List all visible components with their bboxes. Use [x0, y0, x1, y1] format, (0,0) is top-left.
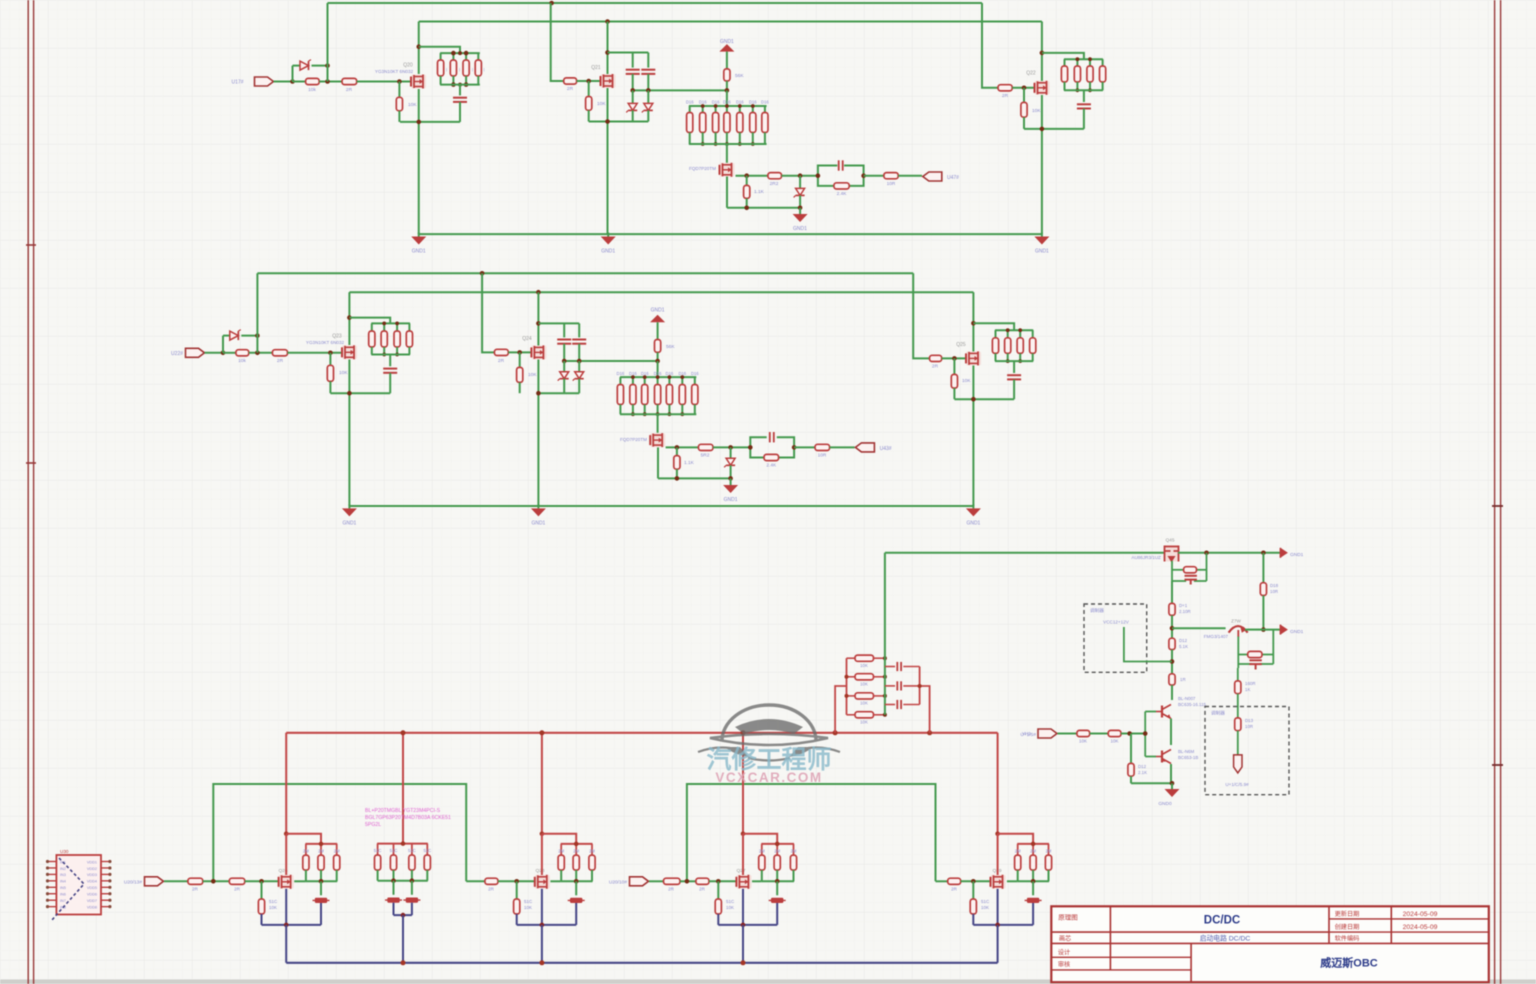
wire array1 top bar (red): [305, 843, 337, 845]
resistor 51C 10K pulldown Q27: [717, 881, 719, 899]
diode D23 bypass: [222, 336, 224, 353]
resistor 10K pulldown Q20: [398, 82, 400, 98]
wire input to bases: [1130, 733, 1146, 735]
junction (1206.5,552.8): [1204, 551, 1209, 556]
power GND1 arrow right 2: [1280, 625, 1288, 635]
diode D20 bypass: [292, 66, 294, 82]
junction array5 bottom: [1031, 879, 1036, 884]
wire zener mid rail s2: [564, 360, 657, 362]
resistor D16 array2#4: [657, 377, 659, 384]
svg-text:51C: 51C: [726, 899, 735, 904]
resistor snubber C2-3: [1019, 330, 1021, 338]
resistor snubber A2-3: [396, 323, 398, 331]
wire bottom return: [727, 207, 800, 209]
wire snubber C2 bottom rail: [995, 360, 1033, 362]
wire R to J2: [319, 81, 342, 83]
wire red L to array1: [286, 834, 321, 844]
svg-text:51C: 51C: [981, 899, 990, 904]
wire Q29 source navy drop: [997, 889, 999, 925]
wire to gate Q29: [961, 880, 991, 882]
svg-text:VDD5: VDD5: [87, 886, 97, 890]
junction Q21 bottom (607.5,121.5): [605, 119, 610, 124]
capacitor midsnub c2: [411, 881, 413, 895]
svg-text:设计: 设计: [1058, 949, 1070, 957]
capacitor snubber A2: [389, 355, 391, 367]
wire navy drop1 to bus: [285, 925, 287, 963]
ground GND1 top symbol: [719, 44, 734, 52]
wire navy U4: [973, 924, 1033, 926]
svg-text:调制器: 调制器: [1090, 607, 1104, 614]
resistor 2R gate Q23: [272, 350, 287, 356]
resistor D16 array2#6: [681, 377, 683, 384]
svg-text:BL+P20TMGBL YGT23M4PCI-S: BL+P20TMGBL YGT23M4PCI-S: [365, 808, 441, 814]
capacitor array1 cap: [320, 881, 322, 895]
wire array center to opto: [726, 144, 728, 163]
wire drain branch to snubber C2: [973, 323, 1014, 330]
resistor D16 array2#1: [619, 377, 621, 384]
svg-text:2M: 2M: [334, 848, 340, 853]
dashed box output: [1205, 707, 1289, 795]
capacitor RC box top: [838, 160, 840, 170]
wire net GATE1 top bus: [328, 2, 983, 4]
resistor array4-3 2M: [793, 844, 795, 855]
zener D24a: [563, 361, 565, 372]
resistor snubber C3: [1089, 59, 1091, 66]
resistor 2R chain1b: [229, 878, 245, 884]
resistor 10k input s2: [223, 352, 236, 354]
transistor NPN driver upper: [1161, 706, 1163, 718]
svg-text:D16: D16: [641, 371, 649, 376]
svg-text:启动电路 DC/DC: 启动电路 DC/DC: [1200, 934, 1251, 943]
capacitor array3 cap: [575, 881, 577, 895]
resistor 10K pulldown Q24: [519, 352, 521, 367]
wire 56K to array: [726, 90, 728, 106]
svg-text:2R: 2R: [488, 887, 495, 892]
wire Q20 source to GND rail: [418, 89, 420, 234]
transistor Q22: [1035, 81, 1050, 95]
junction bank row1: [883, 656, 887, 660]
svg-text:10K: 10K: [1032, 108, 1041, 114]
resistor D18 10R: [1260, 583, 1266, 596]
svg-text:D16: D16: [686, 100, 694, 105]
svg-text:2R: 2R: [277, 358, 284, 364]
wire Q22 drain riser: [1041, 22, 1043, 82]
resistor snubber C4: [1102, 59, 1104, 66]
power GND1 arrow right: [1280, 548, 1288, 558]
svg-text:VDD2: VDD2: [87, 867, 97, 871]
junction mid rail s2: [562, 359, 567, 364]
wire opto out: [736, 175, 768, 177]
wire array7 top rail: [689, 105, 767, 107]
junction DRAIN2 bus x=538.4: [536, 290, 541, 295]
svg-text:VCXCAR.COM: VCXCAR.COM: [715, 770, 822, 785]
wire VCC12 stub: [1124, 627, 1172, 662]
svg-text:D+1: D+1: [1179, 603, 1188, 608]
svg-text:GND1: GND1: [412, 249, 426, 255]
resistor 56K s2: [657, 322, 659, 339]
svg-text:AU86JR3/1UZ: AU86JR3/1UZ: [1131, 555, 1161, 560]
wire net GATE2 bus: [257, 272, 913, 274]
resistor array1-3 2M: [336, 844, 338, 855]
svg-text:Q28: Q28: [535, 868, 544, 874]
svg-text:U47#: U47#: [947, 175, 959, 181]
wire to Q24 gate: [508, 351, 532, 353]
ground GND1 rail2-mid: [537, 504, 539, 508]
wire Q24 source down to GND rail2: [537, 360, 539, 507]
resistor snubber A2: [452, 53, 454, 60]
svg-text:D16: D16: [723, 100, 731, 105]
svg-text:IN7: IN7: [60, 899, 66, 903]
resistor bank 10K row3: [847, 695, 856, 697]
ground GND1 rail-left: [418, 233, 420, 237]
transistor FQD7P20TM opto-fet s2: [650, 433, 665, 447]
junction Q27 drop: [741, 832, 746, 837]
junction Q22 drain branch (1041.9,52.9): [1040, 51, 1045, 56]
svg-text:GND1: GND1: [724, 497, 738, 503]
wire caps top rail Q21: [608, 52, 649, 54]
svg-text:Q22: Q22: [1026, 71, 1036, 77]
wire RC box s2: [750, 437, 766, 447]
wire midsnub navy drop: [402, 915, 404, 963]
wire riser GATE2 to Q25 gate: [913, 273, 929, 358]
svg-text:D16: D16: [736, 100, 744, 105]
junction array4 bottom: [775, 879, 780, 884]
wire Q20 source loop: [400, 121, 460, 123]
junction bottom return: [744, 206, 749, 211]
svg-text:2024-05-09: 2024-05-09: [1403, 924, 1438, 931]
resistor snubber C2: [1076, 59, 1078, 66]
junction (1263.4,552.8): [1261, 551, 1266, 556]
wire opto source down s2: [657, 447, 659, 478]
wire Q45 to GND1 arrow: [1178, 552, 1280, 554]
resistor array3-1 2M: [560, 844, 562, 855]
wire Q21 source to GND rail: [607, 88, 609, 234]
sheet bottom edge strip: [0, 980, 1536, 984]
wire riser GATE1 to Q21 gate: [551, 3, 564, 81]
wire Q27 drain red drop: [742, 733, 744, 834]
svg-text:GND1: GND1: [1290, 629, 1304, 635]
wire net DRAIN2 bus: [349, 291, 973, 293]
svg-text:10R: 10R: [1245, 724, 1253, 729]
wire Q27 source navy drop: [742, 889, 744, 925]
wire port2 to R: [649, 880, 664, 882]
svg-text:Q45: Q45: [1165, 538, 1174, 544]
svg-text:BGL7GP63P20TM4D7B03A 6CKE51: BGL7GP63P20TM4D7B03A 6CKE51: [365, 815, 451, 821]
wire to Q22 gate: [1012, 87, 1035, 89]
sheet frame left double line: [26, 0, 36, 984]
svg-text:2M: 2M: [759, 848, 765, 853]
wire RC-bank mid green column: [884, 553, 886, 715]
svg-text:2R: 2R: [668, 887, 675, 892]
svg-text:2R2: 2R2: [770, 181, 779, 187]
resistor snubber C2-2: [1007, 330, 1009, 338]
svg-text:10R: 10R: [818, 453, 827, 459]
wire PNP collector down: [1237, 637, 1239, 669]
svg-text:1K: 1K: [1245, 687, 1250, 692]
junctions red VBUS: [401, 730, 406, 735]
ground GND1 rail-mid: [607, 233, 609, 237]
junction chain1 (213.3,881.3): [211, 879, 216, 884]
resistor snubber A2-4: [408, 323, 410, 331]
junction out (746.7,175.7): [744, 173, 749, 178]
svg-text:VDD7: VDD7: [87, 899, 97, 903]
wire drain branch to snubber A2: [349, 318, 390, 324]
transistor Q26: [279, 875, 294, 889]
svg-text:U17#: U17#: [232, 80, 244, 86]
wire 1K to D13: [1237, 694, 1239, 718]
svg-text:2.4K: 2.4K: [837, 191, 848, 197]
resistor 10K pulldown Q23: [329, 353, 331, 366]
svg-text:U22#: U22#: [171, 351, 183, 357]
junction Q29 drop: [995, 832, 1000, 837]
junction node Z (800.1,175.7): [798, 173, 803, 178]
junction Q24 bottom: [536, 391, 541, 396]
wire snubber C bottom rail: [1064, 89, 1103, 91]
wire net DRAIN1 bus: [419, 21, 1042, 23]
svg-text:U20/13#: U20/13#: [124, 880, 142, 886]
resistor D13 10R: [1235, 718, 1241, 731]
resistor D16 array#2: [702, 106, 704, 113]
resistor 2R2: [768, 173, 782, 179]
wire Q25 source down to GND rail2: [972, 366, 974, 507]
wire Q24 bottom rail: [538, 392, 579, 394]
resistor array5-1 2M: [1017, 844, 1019, 855]
resistor D16 array2#2: [632, 377, 634, 384]
svg-text:D16: D16: [712, 100, 720, 105]
wire Q28 drain red drop: [541, 733, 543, 834]
svg-text:10K: 10K: [408, 102, 417, 108]
resistor D16 array#5: [739, 106, 741, 113]
junction array3 bottom: [574, 879, 579, 884]
transistor Q27: [736, 875, 751, 889]
resistor 2R gate Q21: [564, 78, 577, 84]
ground GND1 top symbol s2: [650, 315, 665, 323]
resistor 10R out s2: [815, 444, 830, 450]
junction Q22 source loop (1041.9,128.9): [1040, 127, 1045, 132]
wire R2 to gate Q20: [357, 81, 411, 83]
dashed box VCC12: [1084, 604, 1147, 672]
wire Q28 drain segment: [541, 834, 543, 875]
port pin down U+1/C: [1234, 755, 1242, 773]
svg-text:160R: 160R: [1245, 681, 1256, 686]
resistor 2R chain4: [948, 878, 961, 884]
svg-text:D12: D12: [1179, 638, 1188, 643]
resistor snubber A2-2: [383, 323, 385, 331]
capacitor C24a: [563, 323, 565, 337]
capacitor snubber A: [459, 85, 461, 96]
wire riser GATE1 to Q22 gate: [982, 3, 998, 88]
resistor midsnub-1: [377, 844, 379, 855]
wire port1 to R: [164, 880, 188, 882]
svg-text:2M: 2M: [1030, 848, 1036, 853]
zener D21a: [632, 90, 634, 103]
transistor Q45 pass-fet: [1164, 545, 1179, 562]
svg-text:D16: D16: [749, 100, 757, 105]
svg-text:10K: 10K: [528, 372, 537, 378]
port U43#: [855, 443, 874, 452]
capacitor bank row2: [885, 685, 895, 687]
junction midsnub top: [401, 841, 406, 846]
junction gate Q23 (330.4,352.8): [328, 351, 333, 356]
wire navy drop2 to bus: [541, 925, 543, 963]
wire to node Z2: [713, 446, 750, 448]
svg-text:2R: 2R: [567, 86, 574, 92]
svg-text:5.1K: 5.1K: [1179, 644, 1188, 649]
resistor array5-3 2M: [1048, 844, 1050, 855]
svg-text:2R: 2R: [192, 887, 199, 892]
junction RC box s2: [748, 445, 753, 450]
svg-text:IN3: IN3: [60, 873, 66, 877]
junction node Z2 (730.6,447.4): [728, 445, 733, 450]
svg-text:GND1: GND1: [720, 39, 734, 45]
junction navy U2 (541.9,924.9): [540, 923, 545, 928]
capacitor C21b: [647, 53, 649, 68]
svg-text:D16: D16: [699, 100, 707, 105]
svg-text:10K: 10K: [339, 370, 348, 376]
wire Q26 drain segment: [285, 834, 287, 875]
resistor snubber C2-4: [1032, 330, 1034, 338]
wire array5 bottom bar (green): [1017, 880, 1049, 882]
resistor 2.10R: [1169, 603, 1175, 615]
junction J2s2 (257.4,352.8): [255, 351, 260, 356]
wire collector to 1K: [1237, 668, 1239, 681]
capacitor snubber C: [1083, 90, 1085, 102]
svg-text:GND1: GND1: [793, 226, 807, 232]
svg-text:2M: 2M: [573, 848, 579, 853]
resistor 2R chain2: [485, 878, 498, 884]
svg-text:2.4K: 2.4K: [766, 463, 777, 469]
junction Q24 drain (538.4,323.4): [536, 321, 541, 326]
wire snubber A2 top rail: [371, 322, 410, 324]
svg-text:2M: 2M: [791, 848, 797, 853]
junction 56K bottom s2: [655, 359, 660, 364]
svg-text:画芯: 画芯: [1059, 935, 1071, 943]
junction bottom return s2: [675, 476, 680, 481]
resistor 2R gate Q25: [930, 355, 942, 361]
junction Q23 drain branch (349.4,317.6): [347, 315, 352, 320]
junction gate Q22 (1024,87.8): [1022, 86, 1027, 91]
svg-text:GND1: GND1: [651, 308, 665, 314]
svg-text:Z7W: Z7W: [1231, 619, 1241, 624]
svg-text:DC/DC: DC/DC: [1204, 915, 1240, 927]
svg-text:10R: 10R: [1270, 589, 1278, 594]
wire snubber top bar: [377, 843, 428, 845]
resistor array3-2 2M: [575, 844, 577, 855]
svg-text:51C: 51C: [524, 899, 533, 904]
resistor 10R out: [884, 173, 898, 179]
wire 2R2 to node: [782, 175, 818, 177]
svg-text:VDD3: VDD3: [87, 873, 97, 877]
transistor PNP driver lower: [1161, 751, 1163, 763]
resistor snubber A3: [465, 53, 467, 60]
zener D25: [730, 447, 732, 458]
svg-text:Q27: Q27: [736, 868, 745, 874]
svg-text:2R: 2R: [346, 87, 353, 93]
svg-text:10K: 10K: [860, 701, 868, 706]
resistor 1.1K pulldown: [746, 176, 748, 186]
wire red VBUS: [286, 732, 997, 734]
wire RC box: [818, 166, 837, 176]
svg-text:2R: 2R: [699, 887, 706, 892]
svg-text:D16: D16: [654, 371, 662, 376]
junction gate Q29 (973.3,881.3): [971, 879, 976, 884]
transistor Q24: [531, 345, 546, 359]
ground GND1 rail-right: [1041, 233, 1043, 237]
wire snubber C top rail: [1064, 58, 1103, 60]
svg-text:GND1: GND1: [1035, 249, 1049, 255]
junction gate Q25 (954.4,358.4): [952, 356, 957, 361]
wire array2 center to opto: [657, 414, 659, 433]
svg-text:|: |: [446, 67, 447, 72]
resistor 1K: [1235, 681, 1241, 694]
resistor array4-2 2M: [776, 844, 778, 855]
wire RC-bank right stub to bus: [920, 686, 930, 733]
svg-text:5R2: 5R2: [701, 453, 710, 459]
resistor bank 10K row4: [847, 714, 856, 716]
junction midsnub bottom: [391, 878, 396, 883]
transistor PNP Z7W: [1229, 626, 1248, 633]
transistor Q23: [342, 345, 357, 359]
svg-text:10K: 10K: [860, 681, 868, 686]
svg-text:GND1: GND1: [531, 520, 545, 526]
resistor array5-2 2M: [1032, 844, 1034, 855]
zener D21b: [647, 90, 649, 103]
svg-text:BL-N6M: BL-N6M: [1178, 749, 1194, 754]
svg-text:2M: 2M: [589, 848, 595, 853]
svg-text:YG3N10KT 6N032: YG3N10KT 6N032: [375, 69, 414, 74]
junction Q23 source loop (349.4,393.2): [347, 391, 352, 396]
wire base bracket: [1145, 711, 1156, 713]
wire GND rail section2: [349, 505, 973, 507]
junctions snubber A rails: [451, 51, 456, 56]
resistor 10K pulldown Q25: [953, 358, 955, 374]
resistor 2R gate Q20: [342, 78, 357, 84]
svg-text:IN6: IN6: [60, 893, 66, 897]
junction navy U3 (743,924.9): [741, 923, 746, 928]
wire zener mid rail: [633, 89, 727, 91]
wire RC-bank rail stub to bus: [835, 686, 846, 733]
junction array3 top: [574, 842, 579, 847]
wire drain branch to snubber C: [1042, 53, 1084, 59]
junction Q20 drain branch (418.75,46.7): [416, 44, 421, 49]
capacitor C24b: [578, 323, 580, 337]
wire array5 top bar (red): [1017, 843, 1049, 845]
svg-text:D13: D13: [1245, 718, 1254, 723]
watermark logo car: [698, 705, 840, 761]
junction chain3 (686.9,881.3): [685, 879, 690, 884]
junction 56K bottom (726.9,90.4): [725, 88, 730, 93]
svg-text:10K: 10K: [726, 905, 734, 910]
svg-text:1R: 1R: [1180, 677, 1186, 682]
resistor array1-1 2M: [305, 844, 307, 855]
wire right rail D18: [1262, 553, 1264, 583]
wire GND rail section1: [419, 233, 1042, 235]
wire navy U1: [262, 924, 322, 926]
svg-text:威迈斯OBC: 威迈斯OBC: [1320, 956, 1377, 970]
svg-text:|: |: [459, 67, 460, 72]
wire drain branch to snubber A: [419, 47, 460, 53]
wire Q26 source to array1 bar: [294, 880, 305, 882]
svg-text:51C: 51C: [390, 848, 398, 853]
resistor snubber C2-1: [995, 330, 997, 338]
svg-text:U43#: U43#: [880, 446, 892, 452]
svg-text:D16: D16: [691, 371, 699, 376]
junction Q26 drop (286.2,833.8): [284, 832, 289, 837]
wire array7 s2 bottom rail: [620, 413, 696, 415]
resistor 51C 10K pulldown Q26: [261, 881, 263, 899]
resistor 5R2 s2: [698, 444, 713, 450]
wire riser GATE2 to Q24 gate: [482, 273, 494, 352]
